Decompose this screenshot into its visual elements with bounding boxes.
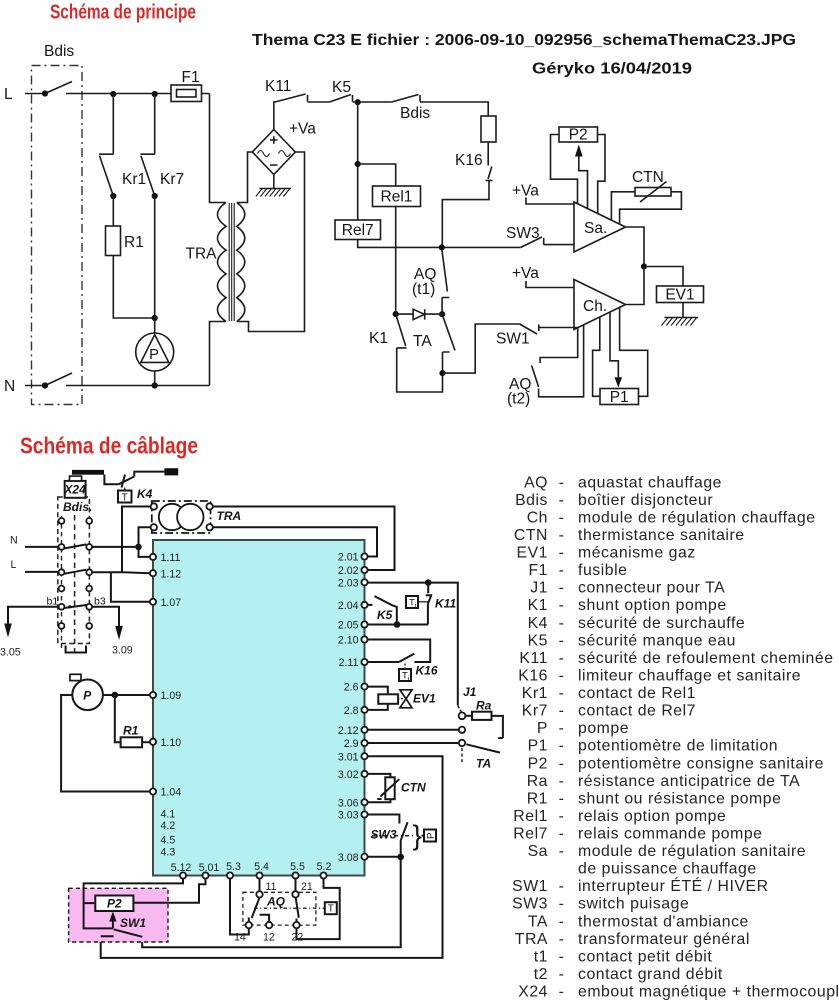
- wire b1 to 3.05 arrow: [8, 607, 59, 624]
- potentiometer P2: [551, 135, 578, 204]
- board terminal 2.01: [361, 553, 367, 559]
- board terminal 5.01: [202, 872, 208, 878]
- svg-text:R1: R1: [124, 234, 144, 251]
- svg-text:boîtier disjoncteur: boîtier disjoncteur: [578, 492, 713, 509]
- svg-text:résistance anticipatrice de TA: résistance anticipatrice de TA: [578, 773, 800, 790]
- svg-text:thermistance sanitaire: thermistance sanitaire: [578, 527, 745, 544]
- svg-text:Bdis.: Bdis.: [63, 500, 92, 514]
- contact K16 (wiring): [368, 654, 414, 662]
- svg-text:-: -: [559, 720, 565, 737]
- svg-text:K4: K4: [137, 487, 153, 501]
- board terminal 1.10: [150, 739, 156, 745]
- thermal element Ti (K16): [399, 669, 411, 681]
- svg-text:Thema C23 E fichier : 2006-09: Thema C23 E fichier : 2006-09-10_092956_…: [252, 32, 796, 49]
- contact t1: [249, 898, 269, 922]
- thermal element T (AQ): [325, 902, 337, 914]
- svg-text:1.12: 1.12: [161, 568, 182, 580]
- wire 2.03 net to J1: [368, 583, 458, 706]
- wire 2.9 line: [368, 742, 459, 744]
- svg-text:3.03: 3.03: [338, 810, 359, 822]
- svg-text:K1: K1: [369, 330, 388, 347]
- svg-text:+Va: +Va: [512, 183, 539, 200]
- svg-text:-: -: [559, 509, 565, 526]
- wire TRA to 2.02: [213, 507, 394, 571]
- svg-text:K16: K16: [518, 668, 548, 685]
- svg-text:P: P: [83, 689, 92, 703]
- junction pump/R1: [112, 692, 119, 699]
- board terminal 2.04: [361, 602, 367, 608]
- svg-text:N: N: [4, 378, 15, 395]
- svg-text:2.9: 2.9: [344, 738, 359, 750]
- svg-text:Kr7: Kr7: [522, 703, 548, 720]
- svg-text:-: -: [559, 545, 565, 562]
- board terminal 1.09: [150, 692, 156, 698]
- svg-text:t2: t2: [534, 966, 548, 983]
- svg-text:K11: K11: [435, 597, 456, 611]
- junction pump N: [152, 382, 158, 388]
- wire b3 to 3.09 arrow: [91, 607, 119, 626]
- svg-text:3.01: 3.01: [338, 751, 359, 763]
- relay Rel1: [373, 186, 421, 207]
- svg-text:F1: F1: [528, 562, 548, 579]
- svg-text:EV1: EV1: [665, 287, 694, 304]
- control board (main PCB): [153, 540, 365, 876]
- wire rail K5-Bdis: [353, 101, 392, 103]
- svg-text:4.1: 4.1: [161, 809, 176, 821]
- svg-text:SW3: SW3: [512, 896, 548, 913]
- contact K4: [119, 472, 165, 488]
- svg-text:21: 21: [301, 881, 313, 893]
- svg-text:SW1: SW1: [120, 916, 146, 930]
- junction outputs: [641, 263, 647, 269]
- svg-text:Kr1: Kr1: [522, 685, 548, 702]
- svg-text:-: -: [559, 615, 565, 632]
- svg-text:}: }: [413, 820, 422, 851]
- contact K16: [442, 142, 492, 247]
- svg-text:P1: P1: [610, 389, 629, 406]
- svg-text:-: -: [559, 668, 565, 685]
- wire N line: [25, 546, 139, 548]
- svg-text:aquastat chauffage: aquastat chauffage: [578, 474, 722, 491]
- svg-text:contact petit débit: contact petit débit: [578, 948, 712, 965]
- svg-text:3.09: 3.09: [112, 645, 133, 657]
- svg-text:TRA: TRA: [186, 246, 218, 263]
- board terminal 1.04: [150, 788, 156, 794]
- junction Kr1 top: [110, 91, 116, 97]
- contact TA: [442, 314, 455, 373]
- svg-text:4.2: 4.2: [161, 820, 176, 832]
- junction TA bottom: [439, 370, 445, 376]
- transformer TRA core: [229, 203, 234, 321]
- board terminal 5.12: [180, 872, 186, 878]
- svg-text:-: -: [559, 790, 565, 807]
- junction L pole: [42, 90, 48, 96]
- wire main node vertical and SW3 feed: [358, 102, 521, 247]
- svg-text:CTN: CTN: [514, 527, 548, 544]
- contact Kr7: [140, 94, 154, 196]
- wire: L rail: [25, 93, 210, 95]
- aquastat AQ dashed box: [243, 892, 316, 925]
- connector X24: [65, 481, 86, 498]
- svg-text:Ra: Ra: [476, 699, 492, 713]
- svg-text:K5: K5: [528, 632, 548, 649]
- wire to EV1: [644, 267, 683, 287]
- svg-text:5.3: 5.3: [226, 861, 241, 873]
- wire Ch output: [626, 267, 645, 305]
- svg-text:b1: b1: [47, 596, 59, 608]
- svg-text:+Va: +Va: [512, 265, 539, 282]
- junction Kr1 bottom: [110, 193, 116, 199]
- svg-text:-: -: [559, 808, 565, 825]
- svg-text:-: -: [559, 896, 565, 913]
- wire 2.05 line: [368, 624, 428, 626]
- svg-text:5.4: 5.4: [254, 861, 269, 873]
- svg-text:3.08: 3.08: [338, 852, 359, 864]
- svg-text:T: T: [328, 904, 334, 915]
- svg-text:Kr7: Kr7: [160, 171, 184, 188]
- svg-text:pompe: pompe: [578, 720, 629, 737]
- wire Kr1 to R1: [112, 196, 114, 226]
- board terminal 2.11: [361, 659, 367, 665]
- contact K1: [396, 314, 443, 392]
- svg-text:1.11: 1.11: [161, 552, 181, 564]
- AQ pin 21: [292, 891, 298, 897]
- svg-text:2.02: 2.02: [338, 565, 359, 577]
- AQ pin 11: [256, 891, 262, 897]
- thermal element Ti (K11): [406, 596, 418, 608]
- svg-text:1.09: 1.09: [161, 690, 182, 702]
- board terminal 2.6: [361, 684, 367, 690]
- magnetic plug: [72, 470, 104, 475]
- wire +Va to Sa: [526, 198, 574, 205]
- svg-text:relais commande pompe: relais commande pompe: [578, 826, 763, 843]
- svg-text:CTN: CTN: [632, 169, 664, 186]
- svg-text:3.06: 3.06: [338, 797, 359, 809]
- board terminal 2.05: [361, 621, 367, 627]
- relay Rel7: [335, 220, 381, 240]
- svg-text:5.5: 5.5: [290, 861, 305, 873]
- thermocouple tip: [164, 468, 178, 475]
- svg-text:(t1): (t1): [412, 281, 435, 298]
- wire junction to R1: [115, 695, 121, 742]
- contact AQ t1: [442, 249, 450, 314]
- wire SW3 to bottom bus: [142, 857, 401, 947]
- diode: [396, 313, 442, 315]
- svg-text:J1: J1: [530, 580, 548, 597]
- wire +Va to Ch: [526, 281, 574, 288]
- svg-text:TRA: TRA: [217, 509, 242, 523]
- junction R1 loop: [152, 315, 158, 321]
- wire 3.01 net to SW1 throw: [101, 756, 443, 958]
- SW3 linkage: [372, 835, 416, 837]
- svg-text:K4: K4: [528, 615, 548, 632]
- svg-text:5.01: 5.01: [199, 862, 220, 874]
- board terminal 2.10: [361, 636, 367, 642]
- svg-text:14: 14: [234, 932, 246, 944]
- board terminal 1.11: [150, 554, 156, 560]
- svg-text:R1: R1: [123, 724, 139, 738]
- svg-text:AQ: AQ: [524, 474, 548, 491]
- wire secondary bottom to rectifier: [237, 152, 305, 332]
- board terminal 3.01: [361, 753, 367, 759]
- wire pump to N rail: [154, 371, 156, 386]
- junction SW3/3.08: [397, 854, 404, 861]
- breaker Bdis dashed box: [32, 66, 83, 405]
- svg-text:SW1: SW1: [496, 331, 530, 348]
- resistor R1 (wiring): [121, 737, 143, 747]
- svg-text:L: L: [11, 559, 17, 571]
- board terminal 2.03: [361, 579, 367, 585]
- svg-text:P: P: [149, 347, 159, 363]
- junction AQ t1 node: [439, 244, 445, 250]
- board terminal 5.5: [292, 872, 298, 878]
- contact Kr1: [99, 94, 113, 196]
- svg-text:Rel7: Rel7: [513, 826, 548, 843]
- svg-text:L: L: [4, 86, 13, 103]
- AQ pin 22: [293, 922, 299, 928]
- svg-text:K5: K5: [377, 608, 393, 622]
- wire 5.4 to pin 11: [259, 879, 261, 891]
- potentiometer P2 (wiring): [95, 896, 133, 912]
- svg-text:2.01: 2.01: [338, 552, 359, 564]
- svg-text:EV1: EV1: [516, 545, 548, 562]
- svg-text:Sa: Sa: [528, 843, 548, 860]
- svg-text:module de régulation chauffage: module de régulation chauffage: [578, 509, 816, 526]
- svg-text:CTN: CTN: [401, 780, 426, 794]
- wire R1 bottom loop: [113, 256, 154, 319]
- breaker bottom bracket: [66, 646, 86, 653]
- svg-text:2.03: 2.03: [338, 577, 359, 589]
- svg-text:-: -: [559, 580, 565, 597]
- svg-text:Sa.: Sa.: [584, 220, 607, 237]
- wire 5.12 to P2 left: [84, 879, 183, 929]
- wire branch to Rel1: [358, 164, 396, 314]
- svg-text:limiteur chauffage et sanitair: limiteur chauffage et sanitaire: [578, 668, 801, 685]
- board terminal 3.03: [361, 811, 367, 817]
- svg-text:2.05: 2.05: [338, 620, 359, 632]
- switch SW1 (wiring): [101, 929, 143, 937]
- svg-text:-: -: [559, 562, 565, 579]
- wire 2.12 line: [368, 729, 459, 731]
- thermistor CTN (wiring): [368, 774, 390, 777]
- board terminal 2.02: [361, 567, 367, 573]
- svg-text:1.10: 1.10: [161, 737, 182, 749]
- AQ pin 12: [266, 922, 272, 928]
- contact t2: [296, 898, 299, 922]
- svg-text:Bdis: Bdis: [44, 43, 74, 60]
- junction Rel1 branch: [355, 161, 361, 167]
- svg-text:Ch.: Ch.: [583, 298, 607, 315]
- svg-text:-: -: [559, 738, 565, 755]
- svg-text:N: N: [10, 535, 18, 547]
- breaker pole contacts: [64, 544, 87, 608]
- switch SW3: [521, 237, 574, 247]
- wire 5.3 to pin 14: [230, 879, 249, 935]
- board terminal 3.08: [361, 854, 367, 860]
- svg-text:contact grand débit: contact grand débit: [578, 966, 723, 983]
- board terminal 3.02: [361, 771, 367, 777]
- svg-text:-: -: [559, 931, 565, 948]
- connector J1: [458, 706, 461, 712]
- svg-text:sécurité de refoulement chemin: sécurité de refoulement cheminée: [578, 650, 834, 667]
- wire 5.5 to pin 21: [295, 879, 297, 891]
- svg-text:contact de Rel1: contact de Rel1: [578, 685, 696, 702]
- wire 5.2 to pin 22: [297, 879, 340, 939]
- svg-text:J1: J1: [463, 685, 477, 699]
- svg-text:potentiomètre de limitation: potentiomètre de limitation: [578, 738, 778, 755]
- svg-text:-: -: [559, 492, 565, 509]
- svg-text:potentiomètre consigne sanitai: potentiomètre consigne sanitaire: [578, 755, 824, 772]
- svg-text:K5: K5: [332, 79, 351, 96]
- board terminal 5.4: [256, 872, 262, 878]
- breaker Bdis (wiring) dashed box: [58, 497, 90, 644]
- wire rail K11-K5: [308, 101, 330, 103]
- thermal element T (K4): [118, 491, 132, 503]
- svg-text:contact de Rel7: contact de Rel7: [578, 703, 696, 720]
- svg-text:switch puisage: switch puisage: [578, 896, 689, 913]
- svg-text:thermostat d'ambiance: thermostat d'ambiance: [578, 913, 749, 930]
- junction K11 branch: [425, 579, 432, 586]
- svg-text:mécanisme gaz: mécanisme gaz: [578, 545, 696, 562]
- svg-text:sécurité de surchauffe: sécurité de surchauffe: [578, 615, 745, 632]
- svg-text:shunt ou résistance pompe: shunt ou résistance pompe: [578, 790, 781, 807]
- module P2/SW1 (pink): [69, 888, 168, 942]
- contact Bdis: [392, 95, 420, 103]
- svg-text:Kr1: Kr1: [122, 171, 146, 188]
- svg-text:4.5: 4.5: [161, 835, 176, 847]
- junction main node: [355, 99, 361, 105]
- svg-text:P2: P2: [528, 755, 548, 772]
- pump P: [136, 333, 174, 371]
- svg-text:X24: X24: [518, 984, 548, 1000]
- svg-text:Schéma de câblage: Schéma de câblage: [20, 432, 198, 458]
- svg-text:P1: P1: [528, 738, 548, 755]
- P2 wiper arrow: [112, 921, 114, 928]
- wire P2 right to 5.01: [133, 879, 205, 903]
- svg-text:-: -: [559, 843, 565, 860]
- svg-text:module de régulation sanitaire: module de régulation sanitaire: [578, 843, 806, 860]
- switch N pole blade: [45, 373, 72, 386]
- wire TRA top-left to L line: [122, 507, 151, 573]
- AQ pin 14: [246, 922, 252, 928]
- transformer TRA (wiring): [152, 501, 211, 533]
- svg-text:T: T: [122, 492, 128, 503]
- svg-text:3.02: 3.02: [338, 769, 359, 781]
- board terminal 2.12: [361, 727, 367, 733]
- svg-text:transformateur général: transformateur général: [578, 931, 750, 948]
- svg-text:Ra: Ra: [527, 773, 548, 790]
- wire TRA to 2.01: [213, 527, 377, 556]
- wire secondary top to rectifier: [237, 152, 253, 203]
- svg-text:5.2: 5.2: [317, 861, 332, 873]
- svg-text:2.10: 2.10: [338, 635, 359, 647]
- wire rail to K16: [420, 102, 488, 116]
- junction Kr7 top: [152, 91, 158, 97]
- ground (rectifier): [260, 175, 292, 189]
- junction K5/K11: [394, 621, 401, 628]
- switch SW1: [520, 324, 579, 334]
- svg-text:2.8: 2.8: [344, 705, 359, 717]
- wire L drop to 1.07: [111, 572, 150, 602]
- svg-text:2.04: 2.04: [338, 600, 359, 612]
- svg-text:K11: K11: [519, 650, 548, 667]
- contact K5: [368, 596, 397, 624]
- svg-text:Schéma de principe: Schéma de principe: [50, 1, 196, 24]
- svg-text:TRA: TRA: [515, 931, 548, 948]
- resistor R1: [106, 226, 121, 256]
- svg-text:5.12: 5.12: [171, 862, 192, 874]
- bridge rectifier: [252, 130, 295, 175]
- svg-text:-: -: [559, 878, 565, 895]
- junction N pole: [42, 382, 48, 388]
- potentiometer P1: [593, 317, 600, 396]
- wire TA node to SW1: [443, 324, 520, 373]
- fuse F1: [171, 85, 202, 102]
- switch L pole blade: [45, 82, 72, 94]
- svg-text:embout magnétique + thermocoup: embout magnétique + thermocouple: [578, 984, 839, 1000]
- svg-text:K16: K16: [416, 664, 438, 678]
- svg-text:TA: TA: [528, 913, 548, 930]
- relay coil K16: [481, 116, 496, 142]
- contact K5: [330, 95, 353, 103]
- contact K11: [426, 582, 433, 624]
- op-amp Ch: [574, 280, 626, 330]
- thermostat TA contact: [466, 744, 500, 752]
- svg-text:4.3: 4.3: [161, 847, 176, 859]
- board terminal 5.2: [320, 872, 326, 878]
- svg-text:-: -: [559, 527, 565, 544]
- board terminal 5.3: [227, 872, 233, 878]
- breaker terminals: [59, 518, 65, 524]
- contact K11: [275, 94, 308, 102]
- board terminal 1.12: [150, 570, 156, 576]
- resistor Ra: [465, 715, 472, 717]
- pump P (wiring): [72, 680, 103, 711]
- board terminal 3.06: [361, 799, 367, 805]
- svg-text:-: -: [559, 474, 565, 491]
- svg-text:-: -: [559, 826, 565, 843]
- svg-text:-: -: [559, 913, 565, 930]
- svg-text:-: -: [559, 685, 565, 702]
- svg-text:TA: TA: [413, 333, 432, 350]
- svg-text:F1: F1: [182, 69, 200, 86]
- svg-text:-: -: [559, 984, 565, 1000]
- wire: N rail: [25, 385, 210, 387]
- svg-text:-: -: [559, 966, 565, 983]
- svg-text:Géryko 16/04/2019: Géryko 16/04/2019: [532, 61, 692, 78]
- svg-text:-: -: [559, 597, 565, 614]
- svg-text:P2: P2: [107, 897, 122, 911]
- svg-text:12: 12: [263, 932, 275, 944]
- wire R1 to 1.10: [142, 741, 150, 743]
- svg-text:EV1: EV1: [413, 692, 436, 706]
- switch SW3 (wiring): [368, 815, 408, 858]
- svg-text:P: P: [426, 832, 437, 839]
- svg-text:Bdis: Bdis: [400, 105, 430, 122]
- svg-text:SW3: SW3: [506, 225, 540, 242]
- wire Sa output: [626, 227, 645, 267]
- svg-text:SW3: SW3: [371, 828, 397, 842]
- ground (EV1): [665, 303, 699, 318]
- svg-text:interrupteur ÉTÉ / HIVER: interrupteur ÉTÉ / HIVER: [578, 876, 769, 895]
- svg-text:Rel7: Rel7: [342, 222, 374, 239]
- svg-text:(t2): (t2): [507, 391, 530, 408]
- svg-text:b3: b3: [94, 596, 106, 608]
- svg-text:relais option pompe: relais option pompe: [578, 808, 726, 825]
- svg-text:-: -: [559, 632, 565, 649]
- svg-text:sécurité manque eau: sécurité manque eau: [578, 632, 736, 649]
- svg-text:1.04: 1.04: [161, 787, 182, 799]
